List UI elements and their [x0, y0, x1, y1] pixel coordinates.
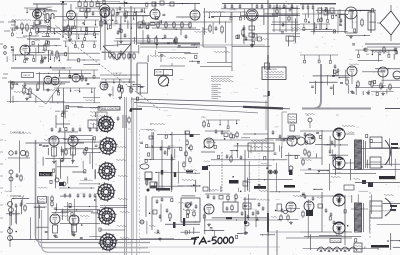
svg-text:6CA7 PP: 6CA7 PP — [62, 67, 72, 70]
svg-text:PHONO EQ: PHONO EQ — [40, 173, 56, 177]
svg-text:CHANNEL A: CHANNEL A — [10, 195, 24, 198]
svg-text:TONE CONTROL: TONE CONTROL — [99, 107, 121, 111]
svg-text:CHANNEL B: CHANNEL B — [10, 132, 25, 135]
svg-text:6CA7 EL34: 6CA7 EL34 — [116, 74, 127, 77]
svg-text:SR: SR — [366, 54, 369, 56]
svg-text:12AX7: 12AX7 — [46, 6, 53, 9]
svg-text:Ø: Ø — [150, 123, 152, 126]
svg-text:(TW): (TW) — [201, 117, 206, 119]
svg-text:12AX7A: 12AX7A — [23, 74, 31, 77]
svg-text:BIAS UPPER: BIAS UPPER — [55, 110, 69, 113]
svg-text:AC BAL: AC BAL — [156, 71, 163, 74]
